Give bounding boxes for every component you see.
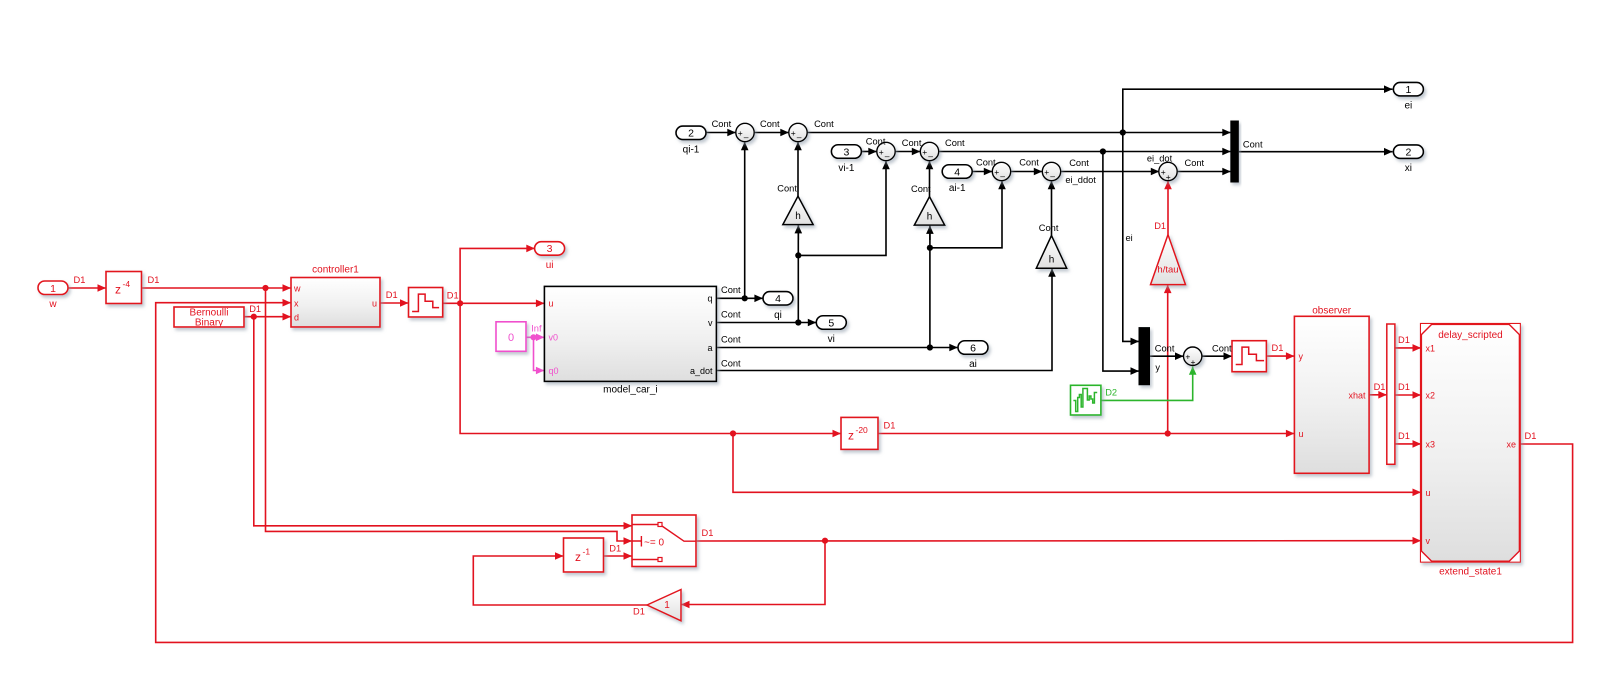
svg-text:x2: x2 bbox=[1426, 391, 1436, 401]
wire switch branch down to gain 1 bbox=[681, 541, 825, 609]
label Cont after mux Cont bbox=[1243, 140, 1263, 150]
label Inf at constant bbox=[531, 324, 542, 334]
svg-text:Cont: Cont bbox=[721, 358, 741, 368]
wire Bernoulli to controller1 d bbox=[244, 313, 291, 321]
label y after mux y bbox=[1155, 363, 1160, 373]
rate transition block 2 bbox=[1232, 341, 1266, 372]
sum block 4 bbox=[920, 142, 938, 161]
svg-text:extend_state1: extend_state1 bbox=[1439, 567, 1502, 578]
svg-text:Cont: Cont bbox=[814, 119, 834, 129]
label D1 before x2 bbox=[1398, 382, 1410, 392]
label Cont after sum5 bbox=[1019, 157, 1039, 167]
svg-text:Cont: Cont bbox=[721, 285, 741, 295]
inport 1 w bbox=[38, 281, 68, 310]
svg-text:w: w bbox=[48, 299, 57, 310]
wire up to h/tau gain input bbox=[1164, 285, 1172, 434]
inport 2 qi-1 bbox=[676, 126, 706, 155]
mux y bbox=[1139, 328, 1150, 385]
svg-text:2: 2 bbox=[1405, 147, 1411, 159]
gain h 1 bbox=[783, 196, 813, 225]
svg-text:–: – bbox=[797, 132, 802, 142]
svg-text:Cont: Cont bbox=[777, 183, 797, 193]
svg-text:v: v bbox=[1426, 536, 1431, 546]
svg-text:Cont: Cont bbox=[721, 334, 741, 344]
svg-text:controller1: controller1 bbox=[312, 265, 359, 276]
wire constant 0 to model v0 bbox=[526, 334, 544, 342]
label D1 before x1 bbox=[1398, 335, 1410, 345]
svg-text:a_dot: a_dot bbox=[690, 366, 713, 376]
wire mux y to sum bbox=[1150, 352, 1184, 360]
svg-text:–: – bbox=[1000, 171, 1005, 181]
junction on u wire bbox=[457, 300, 463, 306]
subsystem model_car_i bbox=[544, 286, 716, 381]
wire sum6 ei_ddot to ei_dot sum bbox=[1061, 168, 1160, 176]
svg-text:D1: D1 bbox=[1374, 382, 1386, 392]
svg-text:Cont: Cont bbox=[760, 119, 780, 129]
label D1 after z-1 bbox=[609, 544, 621, 554]
svg-text:a: a bbox=[707, 343, 712, 353]
svg-text:xhat: xhat bbox=[1348, 390, 1366, 400]
svg-text:Cont: Cont bbox=[911, 184, 931, 194]
wire v branch to sum3 bbox=[798, 161, 890, 256]
sum block 6 bbox=[1042, 162, 1060, 181]
svg-text:x1: x1 bbox=[1426, 343, 1436, 353]
label Cont after model q bbox=[721, 285, 741, 295]
wire gain h2 to sum4 bbox=[926, 161, 934, 197]
svg-text:ai: ai bbox=[969, 359, 977, 370]
svg-text:+: + bbox=[994, 167, 999, 177]
wire h/tau gain to ei_dot sum bbox=[1164, 181, 1172, 235]
label Cont after vi-1 bbox=[866, 137, 886, 147]
wire u branch up to ui outport bbox=[460, 245, 535, 304]
svg-text:ei_dot: ei_dot bbox=[1147, 154, 1173, 164]
svg-text:z: z bbox=[848, 429, 854, 443]
junction ei on sum2 wire bbox=[1120, 129, 1126, 135]
wire qi-1 inport to sum1 bbox=[706, 129, 736, 137]
wire ai-1 inport to sum5 bbox=[972, 168, 992, 176]
svg-text:y: y bbox=[1155, 363, 1160, 373]
wire u branch to extend_state1 u bbox=[733, 434, 1421, 497]
svg-text:Cont: Cont bbox=[1185, 158, 1205, 168]
svg-text:qi: qi bbox=[774, 310, 782, 321]
svg-text:6: 6 bbox=[970, 342, 976, 354]
wire demux to x3 bbox=[1395, 440, 1421, 448]
svg-text:z: z bbox=[575, 550, 581, 564]
svg-text:+: + bbox=[1044, 167, 1049, 177]
svg-text:Inf: Inf bbox=[531, 324, 542, 334]
mux Cont bbox=[1231, 121, 1239, 182]
label Cont after sum1 bbox=[760, 119, 780, 129]
svg-text:xi: xi bbox=[1405, 163, 1412, 174]
name of extend_state1 bbox=[1439, 567, 1502, 578]
svg-text:h/tau: h/tau bbox=[1157, 265, 1178, 276]
svg-text:D1: D1 bbox=[249, 304, 261, 314]
svg-text:D1: D1 bbox=[1398, 431, 1410, 441]
label Cont after sum y bbox=[1212, 344, 1232, 354]
label D1 after xe bbox=[1525, 431, 1537, 441]
label Cont after sum3 bbox=[902, 138, 922, 148]
svg-text:Cont: Cont bbox=[1212, 344, 1232, 354]
label D1 after rate transition 1 bbox=[447, 290, 459, 300]
wire d branch down to switch input1 bbox=[254, 317, 632, 530]
label D2 after noise bbox=[1105, 388, 1117, 398]
label Cont after model a_dot bbox=[721, 358, 741, 368]
svg-text:Cont: Cont bbox=[902, 138, 922, 148]
wire ei branch down to mux y bbox=[1123, 133, 1139, 346]
wire v branch up to gain h1 bbox=[797, 225, 799, 323]
svg-text:D1: D1 bbox=[1398, 335, 1410, 345]
label Cont after ei_dot sum bbox=[1185, 158, 1205, 168]
svg-text:5: 5 bbox=[828, 317, 834, 329]
demux bbox=[1387, 324, 1395, 464]
junction on a vertical bbox=[927, 245, 933, 251]
svg-text:u: u bbox=[1426, 488, 1431, 498]
svg-text:1: 1 bbox=[1405, 84, 1411, 96]
label Cont after mux y bbox=[1155, 344, 1175, 354]
noise generator block bbox=[1071, 385, 1101, 415]
wire observer xhat to demux bbox=[1369, 391, 1387, 399]
wire sum to rate transition 2 bbox=[1202, 352, 1232, 360]
outport 2 xi bbox=[1393, 145, 1423, 174]
wire rate transition to model_car_i u bbox=[443, 300, 545, 308]
junction on switch output bbox=[822, 538, 828, 544]
wire model a_dot to gain h3 bbox=[717, 268, 1056, 370]
constant 0 block bbox=[496, 322, 526, 352]
label D1 above h/tau bbox=[1154, 221, 1166, 231]
svg-text:+: + bbox=[1191, 357, 1196, 367]
outport 5 vi bbox=[816, 316, 846, 345]
svg-text:D1: D1 bbox=[609, 544, 621, 554]
svg-text:D1: D1 bbox=[1398, 382, 1410, 392]
wire switch to extend_state1 v bbox=[696, 537, 1421, 545]
svg-text:~= 0: ~= 0 bbox=[644, 537, 664, 548]
junction on u delay wire bbox=[730, 430, 736, 436]
junction on q wire bbox=[742, 295, 748, 301]
label D1 on w wire bbox=[74, 275, 86, 285]
svg-text:3: 3 bbox=[547, 243, 553, 255]
wire demux to x1 bbox=[1395, 344, 1421, 352]
wire ei branch to ei outport bbox=[1123, 85, 1393, 132]
svg-text:z: z bbox=[115, 283, 121, 297]
svg-text:observer: observer bbox=[1312, 306, 1352, 317]
outport 4 qi bbox=[763, 292, 793, 321]
svg-text:+: + bbox=[879, 147, 884, 157]
wire z-4 to controller1 w bbox=[142, 284, 292, 292]
label D1 after Bernoulli bbox=[249, 304, 261, 314]
svg-text:D1: D1 bbox=[1154, 221, 1166, 231]
svg-text:y: y bbox=[1299, 352, 1304, 362]
inport 4 ai-1 bbox=[942, 165, 972, 194]
svg-text:–: – bbox=[1050, 171, 1055, 181]
svg-text:2: 2 bbox=[688, 128, 694, 140]
label Cont above h1 bbox=[777, 183, 797, 193]
label Cont after ai-1 bbox=[976, 157, 996, 167]
svg-text:u: u bbox=[372, 298, 377, 308]
junction on v wire bbox=[795, 319, 801, 325]
wire xe feedback loop to controller1 x bbox=[156, 299, 1573, 643]
svg-text:w: w bbox=[293, 283, 301, 293]
svg-text:Cont: Cont bbox=[976, 157, 996, 167]
rate transition block 1 bbox=[409, 288, 443, 318]
svg-text:ui: ui bbox=[546, 260, 554, 271]
wire w inport to delay z-4 bbox=[68, 284, 106, 292]
svg-text:0: 0 bbox=[508, 332, 514, 344]
label D1 after z-20 bbox=[884, 421, 896, 431]
svg-text:3: 3 bbox=[843, 146, 849, 158]
label Cont after model v bbox=[721, 309, 741, 319]
wire demux to x2 bbox=[1395, 391, 1421, 399]
wire sum4 to mux Cont input2 bbox=[939, 148, 1231, 156]
svg-text:Binary: Binary bbox=[195, 318, 223, 329]
junction on v vertical bbox=[795, 252, 801, 258]
svg-text:D1: D1 bbox=[1272, 343, 1284, 353]
svg-text:ai-1: ai-1 bbox=[949, 183, 966, 194]
wire model a to ai outport bbox=[717, 344, 958, 352]
delay block z-20 bbox=[841, 417, 878, 449]
svg-text:u: u bbox=[549, 299, 554, 309]
outport 1 ei bbox=[1393, 82, 1423, 111]
label D1 after xhat bbox=[1374, 382, 1386, 392]
Bernoulli Binary generator bbox=[174, 307, 244, 329]
gain h 2 bbox=[914, 197, 944, 226]
wire sum5 to sum6 bbox=[1011, 168, 1043, 176]
inport 3 vi-1 bbox=[831, 145, 861, 174]
wire sum3 to sum4 bbox=[895, 148, 920, 156]
outport 3 ui bbox=[535, 242, 565, 271]
svg-text:Cont: Cont bbox=[1039, 223, 1059, 233]
junction on a wire bbox=[927, 344, 933, 350]
junction feeding h/tau gain bbox=[1165, 430, 1171, 436]
name ei_dot bbox=[1147, 154, 1173, 164]
svg-text:–: – bbox=[885, 151, 890, 161]
wire mux Cont to xi outport bbox=[1239, 148, 1393, 156]
subsystem observer bbox=[1294, 316, 1369, 473]
wire branch down to mux y input2 bbox=[1103, 152, 1139, 375]
label Cont above h3 bbox=[1039, 223, 1059, 233]
svg-text:+: + bbox=[922, 147, 927, 157]
svg-text:-20: -20 bbox=[856, 425, 869, 435]
svg-text:D1: D1 bbox=[884, 421, 896, 431]
junction on constant wire bbox=[530, 334, 536, 340]
label ei_ddot bbox=[1065, 175, 1096, 185]
label D1 at gain 1 bbox=[633, 607, 645, 617]
wire model v to vi outport bbox=[717, 319, 817, 327]
svg-text:D1: D1 bbox=[386, 290, 398, 300]
label Cont after sum2 bbox=[814, 119, 834, 129]
svg-text:D1: D1 bbox=[633, 607, 645, 617]
svg-text:–: – bbox=[928, 151, 933, 161]
arrow into gain h2 bbox=[926, 225, 934, 240]
svg-text:v0: v0 bbox=[549, 333, 559, 343]
outport 6 ai bbox=[958, 341, 988, 370]
svg-text:4: 4 bbox=[954, 166, 960, 178]
sum block 3 bbox=[877, 142, 895, 161]
switch block bbox=[632, 515, 696, 567]
svg-text:Cont: Cont bbox=[712, 119, 732, 129]
svg-text:x3: x3 bbox=[1426, 439, 1436, 449]
svg-text:D1: D1 bbox=[702, 528, 714, 538]
subsystem controller1 bbox=[291, 278, 380, 328]
svg-text:Cont: Cont bbox=[866, 137, 886, 147]
svg-text:Cont: Cont bbox=[1019, 157, 1039, 167]
svg-text:u: u bbox=[1299, 429, 1304, 439]
label D1 before x3 bbox=[1398, 431, 1410, 441]
svg-text:D1: D1 bbox=[1525, 431, 1537, 441]
wire a branch up to gain h2 bbox=[929, 225, 931, 347]
wire w branch down to switch control bbox=[266, 288, 633, 545]
svg-text:qi-1: qi-1 bbox=[683, 144, 700, 155]
wire sum2 to mux Cont bbox=[807, 129, 1231, 137]
svg-text:D1: D1 bbox=[74, 275, 86, 285]
svg-text:-1: -1 bbox=[583, 547, 591, 557]
svg-text:h: h bbox=[927, 212, 933, 223]
svg-text:+: + bbox=[1166, 172, 1171, 182]
svg-text:–: – bbox=[744, 132, 749, 142]
name of model_car_i bbox=[603, 385, 657, 396]
subsystem extend_state1 bbox=[1421, 324, 1520, 562]
wire gain h1 to sum2 bbox=[794, 142, 802, 196]
svg-text:1: 1 bbox=[664, 600, 670, 611]
delay block z-4 bbox=[106, 272, 142, 304]
svg-text:D2: D2 bbox=[1105, 388, 1117, 398]
name of controller1 bbox=[312, 265, 359, 276]
wire rate transition 2 to observer y bbox=[1266, 352, 1294, 360]
sum block 2 bbox=[789, 123, 807, 142]
wire z-20 to observer u bbox=[878, 430, 1294, 438]
gain h/tau bbox=[1151, 235, 1186, 285]
wire z-1 to switch input3 bbox=[604, 552, 633, 560]
svg-text:Cont: Cont bbox=[721, 309, 741, 319]
wire vi-1 inport to sum3 bbox=[861, 148, 877, 156]
wire controller1 u to rate transition bbox=[380, 299, 409, 307]
svg-text:+: + bbox=[738, 128, 743, 138]
svg-text:q: q bbox=[707, 294, 712, 304]
wire noise to sum y bbox=[1101, 366, 1197, 400]
wire a branch to sum5 bbox=[930, 181, 1006, 248]
label D1 after controller1 bbox=[386, 290, 398, 300]
label Cont after qi-1 bbox=[712, 119, 732, 129]
svg-text:Cont: Cont bbox=[1243, 140, 1263, 150]
svg-text:h: h bbox=[795, 211, 801, 222]
wire sum1 to sum2 bbox=[754, 129, 789, 137]
wire ei_dot sum to mux Cont input3 bbox=[1177, 168, 1231, 176]
svg-text:4: 4 bbox=[775, 293, 781, 305]
wire u branch down to delay z-20 bbox=[460, 303, 841, 437]
label Cont above h2 bbox=[911, 184, 931, 194]
label D1 after rate transition 2 bbox=[1272, 343, 1284, 353]
svg-text:-4: -4 bbox=[123, 279, 131, 289]
sum block y bbox=[1184, 347, 1202, 367]
svg-text:h: h bbox=[1049, 255, 1055, 266]
junction on sum4 wire bbox=[1100, 148, 1106, 154]
svg-text:Cont: Cont bbox=[1069, 158, 1089, 168]
junction on w wire bbox=[262, 285, 268, 291]
wire gain h3 to sum6 bbox=[1048, 181, 1056, 236]
svg-text:ei: ei bbox=[1405, 101, 1413, 112]
svg-text:x: x bbox=[294, 298, 299, 308]
svg-text:Cont: Cont bbox=[945, 138, 965, 148]
svg-text:xe: xe bbox=[1506, 439, 1516, 449]
wire gain 1 feedback to delay z-1 bbox=[473, 552, 647, 605]
svg-text:q0: q0 bbox=[549, 366, 559, 376]
sum block 1 bbox=[736, 123, 754, 142]
wire constant branch to model q0 bbox=[534, 337, 545, 374]
label D1 after switch bbox=[702, 528, 714, 538]
svg-text:vi-1: vi-1 bbox=[838, 163, 855, 174]
wire q branch up to sum1 bbox=[741, 142, 749, 299]
label Cont after sum6 bbox=[1069, 158, 1089, 168]
svg-text:model_car_i: model_car_i bbox=[603, 385, 657, 396]
junction on d wire bbox=[251, 314, 257, 320]
arrow into gain h1 bbox=[795, 225, 803, 240]
wire model q to qi outport bbox=[717, 295, 763, 303]
gain 1 block bbox=[647, 590, 681, 621]
svg-text:delay_scripted: delay_scripted bbox=[1438, 330, 1502, 341]
svg-text:D1: D1 bbox=[447, 290, 459, 300]
label ei on vertical wire bbox=[1126, 233, 1133, 243]
svg-text:v: v bbox=[708, 318, 713, 328]
label Cont after model a bbox=[721, 334, 741, 344]
label Cont after sum4 bbox=[945, 138, 965, 148]
svg-text:1: 1 bbox=[50, 283, 56, 295]
svg-text:+: + bbox=[791, 128, 796, 138]
svg-text:Cont: Cont bbox=[1155, 344, 1175, 354]
sum block ei_dot bbox=[1159, 162, 1177, 182]
delay block z-1 bbox=[564, 538, 604, 572]
label D1 after z-4 bbox=[148, 275, 160, 285]
svg-text:d: d bbox=[294, 312, 299, 322]
svg-text:D1: D1 bbox=[148, 275, 160, 285]
sum block 5 bbox=[992, 162, 1010, 181]
svg-text:ei: ei bbox=[1126, 233, 1133, 243]
svg-text:ei_ddot: ei_ddot bbox=[1065, 175, 1096, 185]
gain h 3 bbox=[1036, 236, 1066, 269]
svg-text:vi: vi bbox=[828, 334, 835, 345]
name of observer bbox=[1312, 306, 1352, 317]
